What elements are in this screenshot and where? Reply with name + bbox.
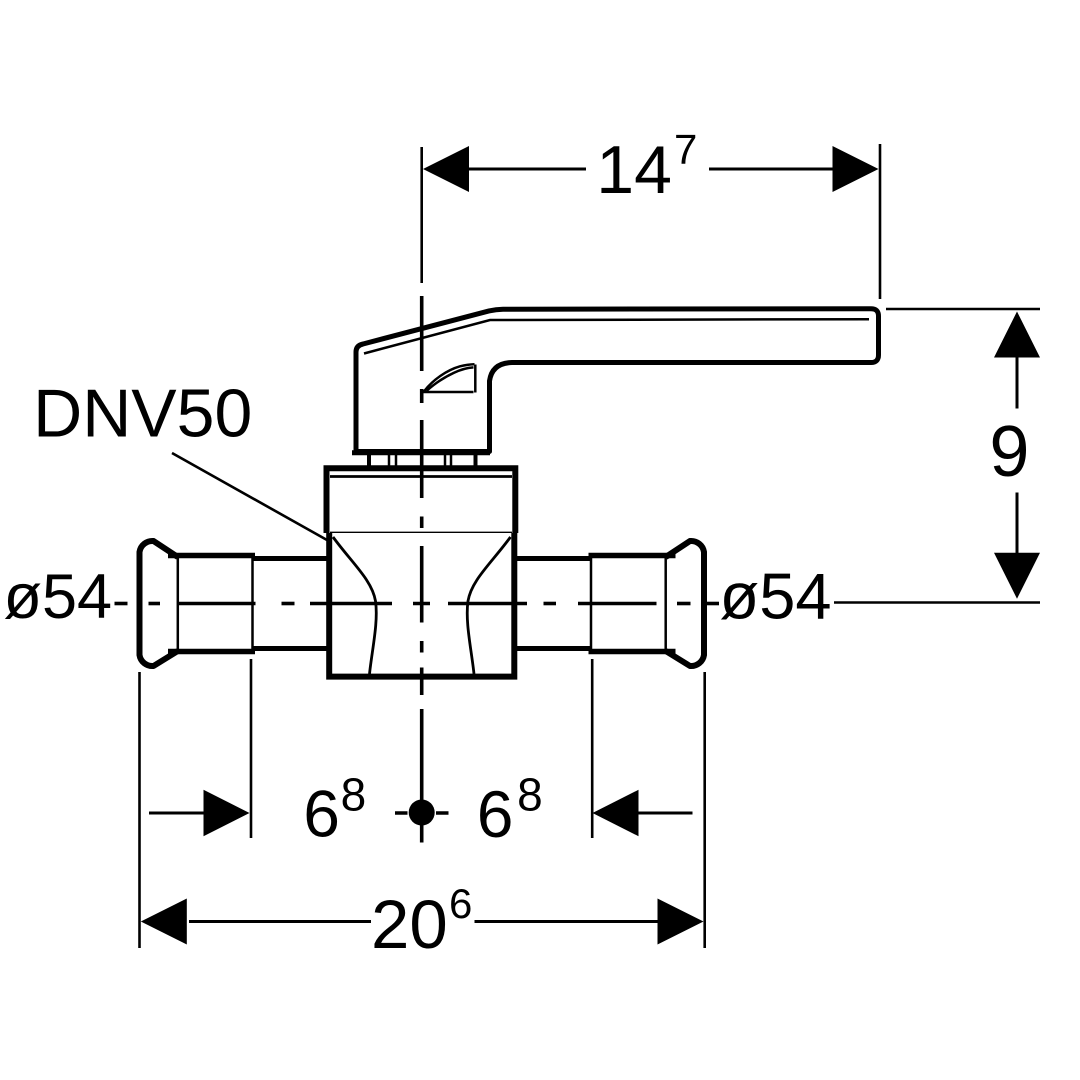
handle thumb wedge bottom line [424,391,474,394]
svg-text:7: 7 [674,125,697,172]
right bell transition vertical [664,557,667,651]
svg-text:6: 6 [449,880,472,927]
dimension 14^7 line left segment [467,168,586,171]
right plain tube bottom edge [512,646,592,651]
valve body outline [329,533,514,677]
horizontal centerline dash-dot [115,602,720,606]
body shoulder line [330,532,512,535]
center dot left tick [395,811,408,815]
dimension 6^8 left tail line [149,812,204,815]
svg-text:ø54: ø54 [720,560,832,633]
svg-text:8: 8 [517,768,543,820]
dimension 9 upper arrow [994,312,1040,358]
left plain tube top edge [253,556,333,561]
svg-text:6: 6 [303,777,340,851]
handle highlight line [364,319,869,353]
left socket top edge [168,553,255,559]
right socket top edge [589,553,676,559]
handle thumb wedge outer curve [424,364,475,392]
center dot right tick [436,811,449,815]
right plain tube top edge [512,556,592,561]
svg-text:14: 14 [596,132,672,208]
left press bell outline [140,541,178,666]
center reference dot [409,800,435,826]
dimension 20^6 line right segment [475,920,659,923]
dimension 9 upper line segment [1016,358,1019,409]
svg-text:8: 8 [341,768,367,820]
left bell transition vertical [177,557,180,651]
bonnet (union nut) outline [327,468,516,533]
left socket end vertical [251,556,254,651]
dimension 14^7 left extension line (center extension) [420,147,423,283]
stem inner tick 1 [388,455,391,467]
right socket bottom edge [589,649,676,655]
dimension 9 top extension line [886,308,1040,311]
handle thumb wedge inner curve [427,367,474,391]
bonnet inner line [330,475,512,478]
stem outer tick left [367,453,371,468]
extension line right socket end [591,659,594,838]
extension line bell right bottom [703,672,706,948]
stem inner tick 4 [450,455,453,467]
stem inner tick 2 [395,455,398,467]
svg-text:DNV50: DNV50 [33,375,252,451]
dimension 20^6 line left segment [189,920,371,923]
dimension 14^7 right arrow [833,146,879,192]
dimension 20^6 right arrow [658,899,704,945]
svg-text:9: 9 [989,412,1029,492]
body right S-curve [467,537,510,674]
dimension 6^8 right arrow [593,790,639,836]
dimension 14^7 left arrow [423,146,469,192]
stem collar bottom line [352,450,490,455]
body left S-curve [333,537,376,674]
vertical centerline dash-dot [420,296,424,843]
dimension 6^8 left arrow [204,790,250,836]
dimension 20^6 left arrow [141,899,187,945]
extension line bell left bottom [138,672,141,948]
handle (lever) outline [356,309,879,452]
dimension 14^7 right extension line [879,144,882,299]
svg-text:6: 6 [477,777,514,851]
svg-text:20: 20 [371,886,448,963]
dimension 6^8 right tail line [639,812,693,815]
left plain tube bottom edge [253,646,333,651]
svg-text:ø54: ø54 [4,562,113,632]
stem outer tick right [474,453,478,468]
right socket end vertical [590,556,593,651]
dimension 9 lower arrow [994,553,1040,599]
dimension 9 lower line segment [1016,493,1019,554]
dimension 14^7 line right segment [709,168,834,171]
right press bell outline [666,541,704,666]
handle thumb wedge tip vertical [474,365,477,393]
leader line from DNV50 to body [172,453,327,540]
left socket bottom edge [168,649,255,655]
dimension 9 bottom extension line [834,601,1040,604]
extension line left socket end [250,659,253,838]
stem inner tick 3 [444,455,447,467]
